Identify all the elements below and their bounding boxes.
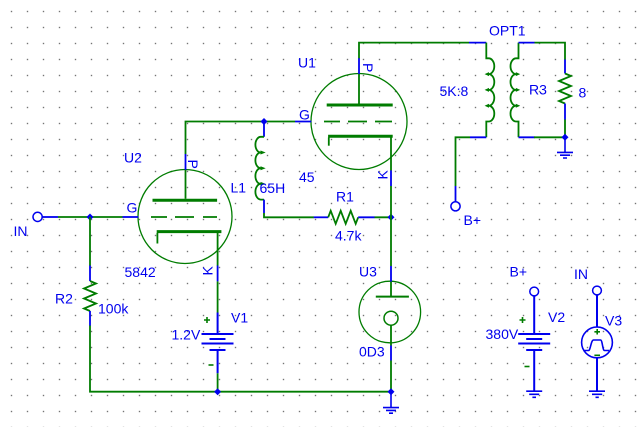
svg-text:V3: V3 — [605, 313, 622, 329]
tube U3 (gas regulator 0D3) — [359, 281, 421, 345]
pin K of U2 — [217, 266, 219, 282]
transformer OPT1 — [469, 43, 535, 138]
svg-text:B+: B+ — [510, 264, 528, 280]
wire U2 cathode to V1 — [217, 281, 219, 312]
pin G of U1 — [295, 121, 311, 123]
tube U2 (triode 5842) — [138, 170, 232, 266]
svg-text:5842: 5842 — [125, 264, 156, 280]
wire cathode node down to U3 — [390, 186, 392, 266]
wire V1 to ground rail — [217, 373, 219, 391]
svg-text:IN: IN — [14, 223, 28, 239]
svg-text:OPT1: OPT1 — [489, 23, 526, 39]
wire OPT1 secondary top to R3 — [535, 43, 566, 60]
svg-text:0D3: 0D3 — [359, 344, 385, 360]
battery V2 — [518, 296, 550, 391]
tube U1 (triode 45) — [311, 74, 407, 171]
svg-text:U2: U2 — [124, 150, 142, 166]
wire U3 to ground rail — [390, 361, 392, 392]
svg-text:IN: IN — [574, 266, 588, 282]
pin anode of U3 — [390, 266, 392, 282]
svg-text:380V: 380V — [486, 326, 519, 342]
port IN (left input terminal) — [33, 212, 58, 221]
wire R3 bottom to secondary bottom — [534, 120, 565, 138]
svg-text:G: G — [299, 107, 310, 123]
pin G of U2 — [123, 216, 139, 218]
ground (V3) — [589, 391, 605, 397]
resistor R1 — [314, 211, 375, 224]
wire U1 plate up and right to OPT1 — [359, 43, 469, 59]
wire junction down to R2 — [89, 217, 91, 266]
pin K of U1 — [390, 170, 392, 186]
port B+ (plate supply terminal) — [451, 186, 460, 211]
svg-text:P: P — [185, 160, 201, 169]
port B+ (V2 supply terminal) — [530, 287, 539, 296]
wire R2 bottom to ground rail — [90, 326, 391, 392]
node V1 bottom junction — [214, 388, 221, 395]
svg-text:K: K — [200, 266, 216, 276]
node L1 tap junction — [261, 118, 268, 125]
svg-text:U1: U1 — [298, 55, 316, 71]
wire L1 bottom to R1 — [264, 213, 314, 217]
wire U2 plate up and right to U1 grid — [186, 122, 296, 155]
wire OPT1 primary bottom to B+ — [456, 137, 471, 186]
svg-text:L1: L1 — [231, 180, 247, 196]
svg-text:8: 8 — [579, 85, 587, 101]
svg-text:5K:8: 5K:8 — [440, 83, 469, 99]
svg-text:V1: V1 — [231, 310, 248, 326]
svg-text:R2: R2 — [55, 291, 73, 307]
svg-text:P: P — [360, 63, 376, 72]
resistor R2 — [84, 266, 96, 326]
svg-text:R3: R3 — [529, 82, 547, 98]
svg-text:K: K — [375, 170, 391, 180]
resistor R3 — [559, 60, 571, 120]
svg-text:G: G — [127, 200, 138, 216]
source V3 (pulse source) — [582, 295, 613, 391]
node secondary ground junction — [562, 134, 569, 141]
pin cathode of U3 — [390, 346, 392, 361]
svg-text:100k: 100k — [98, 301, 129, 317]
port IN (V3 source terminal) — [593, 286, 602, 295]
ground (main) — [383, 392, 399, 414]
svg-text:V2: V2 — [548, 309, 565, 325]
pin P of U2 — [185, 154, 187, 170]
ground (V2) — [526, 391, 542, 397]
svg-text:1.2V: 1.2V — [172, 327, 201, 343]
svg-text:B+: B+ — [464, 212, 482, 228]
node U1 cathode junction — [388, 214, 395, 221]
wire IN to U2 grid — [58, 216, 123, 218]
svg-text:R1: R1 — [336, 189, 354, 205]
svg-text:U3: U3 — [359, 264, 377, 280]
svg-text:45: 45 — [299, 169, 315, 185]
battery V1 — [202, 313, 234, 374]
svg-text:65H: 65H — [260, 180, 286, 196]
node ground rail junction — [388, 388, 395, 395]
svg-text:4.7k: 4.7k — [335, 228, 362, 244]
wire R1 to cathode node — [375, 216, 392, 218]
node input junction — [87, 214, 94, 221]
inductor L1 — [255, 122, 265, 213]
ground (OPT1 secondary) — [557, 137, 573, 158]
pin P of U1 — [358, 58, 360, 74]
